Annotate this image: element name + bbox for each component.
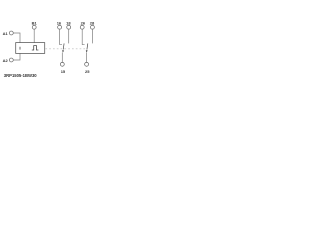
wire A1 to box bbox=[13, 33, 20, 43]
lever arrow 1 bbox=[62, 50, 64, 52]
terminal 15 bbox=[60, 62, 64, 66]
terminal A2 bbox=[9, 58, 13, 62]
svg-text:A2: A2 bbox=[3, 58, 9, 63]
wire 26 with seat bbox=[82, 29, 84, 45]
lever arrow 2 bbox=[86, 50, 88, 52]
svg-text:A1: A1 bbox=[3, 31, 9, 36]
terminal B1 bbox=[32, 25, 36, 29]
terminal A1 bbox=[9, 31, 13, 35]
wire A2 to box bbox=[13, 53, 20, 60]
wire common 25 bbox=[86, 52, 88, 62]
wire 16 with seat bbox=[60, 29, 62, 45]
terminal 28 bbox=[90, 25, 94, 29]
terminal 16 bbox=[58, 25, 62, 29]
mechanical link (dashed) bbox=[45, 48, 86, 50]
svg-text:25: 25 bbox=[85, 69, 90, 74]
svg-text:26: 26 bbox=[81, 20, 86, 25]
contact lever 1 bbox=[62, 43, 65, 49]
coil box K1 bbox=[16, 43, 45, 54]
terminal 25 bbox=[85, 62, 89, 66]
coil input tick bbox=[19, 47, 21, 50]
svg-text:15: 15 bbox=[61, 69, 66, 74]
wire B1 to box bbox=[33, 29, 35, 43]
terminal 18 bbox=[67, 25, 71, 29]
svg-text:18: 18 bbox=[66, 20, 71, 25]
wire common 15 bbox=[61, 52, 63, 62]
wire 18 bbox=[68, 29, 70, 43]
svg-text:16: 16 bbox=[57, 20, 62, 25]
svg-text:28: 28 bbox=[90, 20, 95, 25]
wire 28 bbox=[91, 29, 93, 43]
svg-text:3RP1505-1BW30: 3RP1505-1BW30 bbox=[4, 73, 37, 78]
terminal 26 bbox=[80, 25, 84, 29]
svg-text:B1: B1 bbox=[32, 20, 38, 25]
pulse symbol bbox=[32, 46, 39, 50]
contact lever 2 bbox=[86, 43, 89, 49]
